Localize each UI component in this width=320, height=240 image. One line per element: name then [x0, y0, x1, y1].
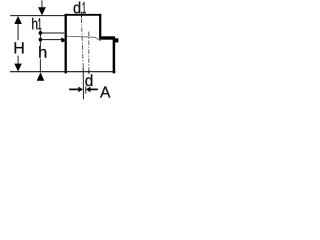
- H dimension line upper segment: [17, 20, 19, 41]
- top datum extension line: [10, 15, 64, 17]
- A dimension left arrow tail: [69, 88, 79, 90]
- h arrow up below baseline: [37, 72, 45, 81]
- socket rim bump right: [115, 38, 119, 42]
- axis 1 (top pipe centerline, dash-dot, slight slant): [81, 19, 83, 68]
- level line 2 with dot and arrowhead: [42, 39, 62, 41]
- H arrow down: [14, 64, 21, 72]
- socket rim bump left: [62, 38, 66, 43]
- h1 dimension arrow line: [41, 0, 43, 8]
- axis 1 extension below (witness for A): [82, 67, 84, 99]
- fitting body left edge: [65, 14, 67, 74]
- level line 1 with dot: [42, 32, 65, 34]
- axis 2 (socket centerline, dash-dot): [88, 32, 90, 70]
- fitting body right lower edge: [113, 37, 116, 74]
- fitting shoulder: [99, 36, 115, 39]
- label A: [100, 86, 110, 97]
- taper line inside body: [67, 36, 101, 41]
- bottom datum baseline: [10, 71, 116, 73]
- axis 2 tick through bottom edge: [88, 70, 90, 74]
- H dimension line lower segment: [17, 56, 19, 67]
- fitting body right upper edge: [99, 14, 101, 39]
- A dimension right arrowhead: [86, 87, 91, 93]
- H arrow up: [14, 16, 21, 24]
- axis 1 tick through top edge: [80, 12, 82, 18]
- label h1: [32, 18, 41, 30]
- witness line under d label: [85, 86, 87, 93]
- A dimension right arrow tail: [90, 88, 98, 90]
- A dimension left arrowhead: [78, 87, 83, 93]
- h1 arrow down: [38, 7, 46, 15]
- label d: [85, 74, 92, 86]
- h dimension line lower segment: [39, 59, 41, 72]
- fitting body top edge: [65, 14, 102, 16]
- label h: [39, 46, 46, 58]
- label H: [15, 42, 24, 53]
- h dimension line upper segment: [39, 30, 41, 47]
- label d1: [74, 2, 86, 14]
